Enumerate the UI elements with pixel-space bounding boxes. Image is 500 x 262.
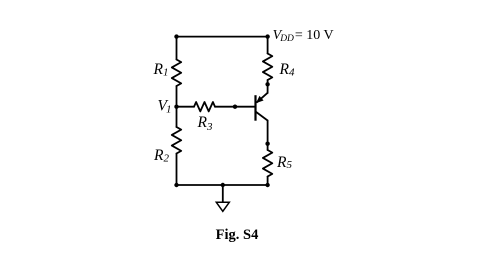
svg-text:R: R bbox=[153, 61, 164, 78]
svg-text:1: 1 bbox=[166, 103, 172, 115]
svg-text:R: R bbox=[153, 147, 164, 164]
svg-text:Fig. S4: Fig. S4 bbox=[216, 227, 259, 243]
svg-text:R: R bbox=[276, 154, 287, 171]
svg-text:1: 1 bbox=[163, 67, 169, 79]
svg-text:DD: DD bbox=[279, 34, 294, 44]
svg-text:4: 4 bbox=[289, 67, 295, 79]
svg-text:5: 5 bbox=[287, 159, 293, 171]
svg-text:= 10 V: = 10 V bbox=[295, 28, 334, 43]
svg-text:3: 3 bbox=[206, 121, 213, 133]
svg-text:R: R bbox=[197, 114, 208, 131]
svg-text:2: 2 bbox=[164, 153, 170, 165]
svg-text:R: R bbox=[279, 61, 290, 78]
